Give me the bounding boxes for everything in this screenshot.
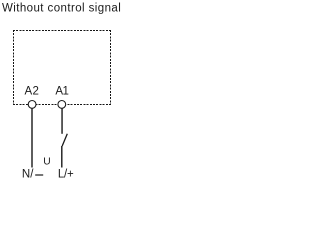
svg-text:L/+: L/+ xyxy=(58,169,74,181)
terminal A1 xyxy=(58,101,66,109)
wire: A2 terminal to N conductor xyxy=(31,109,33,168)
svg-text:Without control signal: Without control signal xyxy=(2,3,121,15)
terminal A2 xyxy=(28,101,36,109)
switch S1 blade (normally-open contact) xyxy=(62,134,67,146)
dashed enclosure box: bottom edge xyxy=(13,104,111,106)
dashed enclosure box: right edge xyxy=(110,30,112,105)
minus sign of N/- xyxy=(35,174,43,176)
svg-text:A1: A1 xyxy=(55,86,68,98)
wire: A1 terminal down to switch xyxy=(61,109,63,134)
svg-text:U: U xyxy=(43,157,50,168)
svg-text:A2: A2 xyxy=(25,86,40,98)
svg-text:N/: N/ xyxy=(22,169,34,181)
dashed enclosure box: top edge xyxy=(13,30,111,32)
wire: switch to L conductor xyxy=(61,146,63,168)
dashed enclosure box: left edge xyxy=(13,30,15,105)
